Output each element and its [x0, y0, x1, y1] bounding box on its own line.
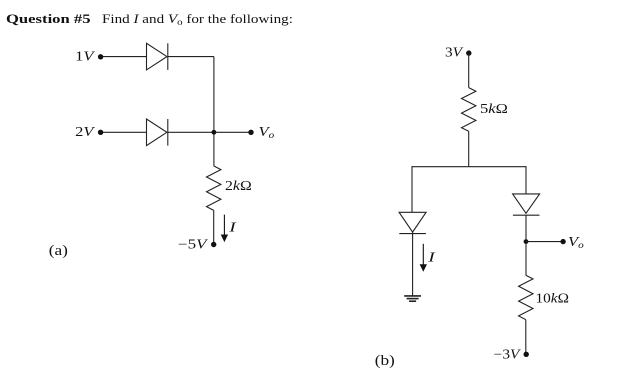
svg-text:−3V: −3V	[494, 347, 522, 362]
resistor R3 10k zigzag	[519, 275, 533, 320]
ground	[404, 296, 421, 301]
wire D3 to ground	[412, 232, 414, 296]
wire 2V to diode D2	[103, 131, 147, 133]
terminal dot -5V	[211, 242, 216, 247]
diode D2	[147, 119, 168, 146]
svg-text:I: I	[228, 220, 237, 235]
svg-text:(a): (a)	[49, 243, 68, 259]
terminal dot Vo (b)	[560, 239, 565, 244]
junction dot node A	[212, 130, 217, 135]
wire R3 to -3V	[525, 320, 527, 354]
svg-text:−5V: −5V	[178, 237, 208, 252]
svg-text:2kΩ: 2kΩ	[225, 179, 252, 193]
wire horizontal bus (b)	[412, 166, 527, 168]
wire D4 to R3	[525, 215, 527, 275]
terminal dot -3V	[524, 352, 529, 357]
junction dot node B	[524, 239, 529, 244]
diode D4	[513, 194, 540, 215]
wire R2 to bus	[468, 131, 470, 166]
wire 3V to R2	[468, 53, 470, 88]
wire junction to Vo (b)	[526, 241, 563, 243]
diode D1	[147, 43, 168, 70]
svg-text:Question #5: Question #5	[6, 13, 91, 27]
svg-text:I: I	[427, 250, 436, 265]
wire D1 to corner	[168, 56, 214, 58]
node 2V terminal dot	[98, 130, 103, 135]
svg-text:Find I and Vo for the followin: Find I and Vo for the following:	[102, 13, 293, 28]
svg-text:1V: 1V	[75, 50, 95, 64]
svg-text:Vo: Vo	[259, 126, 275, 141]
resistor R1 2k zigzag	[207, 166, 221, 211]
svg-text:3V: 3V	[445, 46, 464, 61]
wire D2 to Vo terminal	[168, 131, 251, 133]
wire vertical bus (a)	[213, 57, 215, 166]
current arrow I (b)	[420, 244, 426, 271]
terminal dot 3V	[466, 50, 471, 55]
terminal dot Vo (a)	[248, 130, 253, 135]
svg-text:10kΩ: 10kΩ	[536, 291, 569, 306]
node 1V terminal dot	[98, 54, 103, 59]
svg-text:2V: 2V	[75, 125, 95, 139]
resistor R2 5k zigzag	[462, 88, 476, 132]
wire bus to diode D3	[411, 166, 413, 212]
svg-text:Vo: Vo	[568, 235, 584, 250]
diode D3	[399, 212, 426, 233]
wire bus to diode D4	[525, 166, 527, 194]
svg-text:(b): (b)	[375, 353, 395, 369]
current arrow I (a)	[221, 215, 227, 242]
wire resistor to -5V	[213, 210, 215, 244]
wire 1V to diode D1	[103, 56, 147, 58]
svg-text:5kΩ: 5kΩ	[480, 102, 508, 116]
